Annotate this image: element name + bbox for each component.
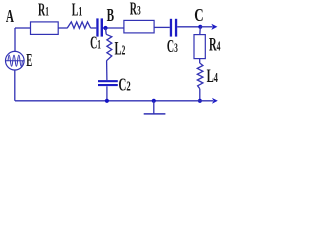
svg-text:C: C <box>194 6 203 26</box>
node A <box>6 8 14 27</box>
svg-text:A: A <box>6 8 14 27</box>
svg-text:R4: R4 <box>209 36 221 56</box>
svg-text:C3: C3 <box>167 37 178 57</box>
wire A corner to R1 <box>15 27 31 29</box>
svg-text:E: E <box>26 52 32 71</box>
output arrow (bottom right) <box>212 98 218 104</box>
ground <box>144 99 166 114</box>
inductor L2 <box>106 34 126 61</box>
voltage source E <box>6 51 33 71</box>
svg-text:B: B <box>107 7 114 26</box>
wire L2 to C2 <box>106 61 108 80</box>
svg-text:C1: C1 <box>90 34 101 54</box>
capacitor C3 <box>167 19 178 57</box>
node C <box>194 6 203 29</box>
node junction C2 / bottom rail <box>105 99 109 103</box>
wire E bottom to bottom rail corner <box>14 70 16 101</box>
wire R1 to L1 <box>58 27 67 29</box>
node B <box>103 7 114 30</box>
wire C1 to R3 <box>103 27 124 29</box>
node junction L4 / bottom rail <box>198 99 202 103</box>
wire output arrow (top right) <box>200 24 217 30</box>
resistor R4 <box>194 35 221 59</box>
svg-text:L4: L4 <box>207 66 218 87</box>
inductor L4 <box>197 63 218 89</box>
wire node C down to R4 <box>199 27 202 35</box>
wire L4 to bottom rail <box>199 89 201 101</box>
svg-text:R1: R1 <box>38 1 49 21</box>
wire C2 to bottom rail <box>106 86 108 101</box>
svg-text:L1: L1 <box>72 1 82 21</box>
svg-text:L2: L2 <box>115 40 126 60</box>
wire R4 to L4 <box>199 59 201 63</box>
wire from A corner down to source E top <box>14 28 16 51</box>
resistor R3 <box>124 0 154 33</box>
wire L1 to C1 <box>91 27 97 29</box>
wire C3 to node C <box>177 26 200 28</box>
svg-text:C2: C2 <box>119 76 131 95</box>
wire R3 to C3 <box>154 26 170 28</box>
wire node B down to L2 <box>105 28 108 34</box>
wire bottom rail <box>15 100 213 102</box>
resistor R1 <box>31 1 59 35</box>
capacitor C1 <box>90 18 103 53</box>
capacitor C2 <box>98 76 131 95</box>
svg-text:R3: R3 <box>130 0 141 20</box>
inductor L1 <box>67 1 90 28</box>
